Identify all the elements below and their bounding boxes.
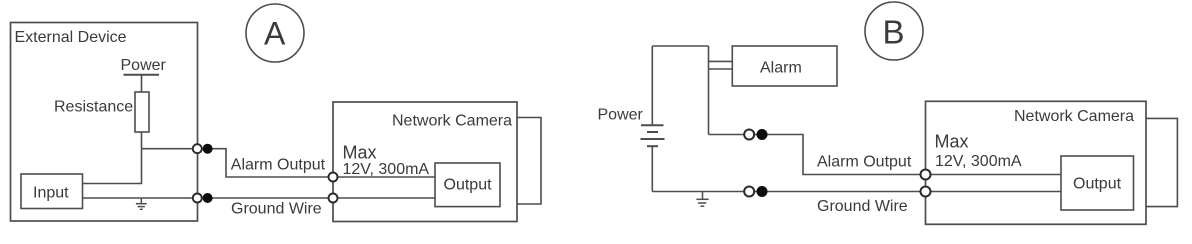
black terminal A2 (ground) [203,193,213,203]
white terminal B2 (ground) [744,187,754,197]
white camera terminal B2 [921,187,931,197]
svg-text:A: A [264,16,286,52]
external device box [11,23,198,222]
output box A [435,163,500,207]
white terminal B1 (alarm) [744,130,754,140]
svg-text:Max: Max [935,132,969,152]
resistor (Resistance) [135,92,149,132]
ground wire B [652,191,1061,193]
svg-text:Alarm Output: Alarm Output [231,157,326,174]
wire power terminal to resistor [141,75,143,92]
svg-text:Alarm Output: Alarm Output [817,153,912,170]
input box [21,174,83,209]
svg-text:Power: Power [121,57,167,74]
wire resistor bottom to junction [141,132,143,149]
white camera terminal A2 [329,194,338,203]
svg-text:Power: Power [598,107,644,124]
svg-text:12V, 300mA: 12V, 300mA [935,153,1022,170]
circle label A [246,4,304,62]
network camera box A [333,102,517,222]
ground wire A [83,197,435,199]
bracket B [1146,118,1177,206]
svg-text:External Device: External Device [15,29,127,46]
svg-text:Resistance: Resistance [54,99,133,116]
alarm output wire A [207,149,435,177]
output box B [1061,156,1134,210]
battery stem top [651,46,653,125]
white camera terminal B1 [921,170,931,180]
power terminal bar [124,74,160,76]
battery stem bottom [651,146,653,191]
svg-text:Max: Max [343,143,377,163]
circle label B [865,2,923,60]
svg-text:Network Camera: Network Camera [1014,108,1134,125]
wire junction to alarm terminal [142,148,198,150]
ground symbol A [136,198,147,209]
svg-text:B: B [883,13,905,50]
black terminal A1 (alarm) [203,144,213,154]
white terminal A2 (ground) [193,194,202,203]
alarm box stub 2 [709,68,733,70]
svg-text:Output: Output [1073,176,1122,193]
svg-text:Input: Input [33,185,69,202]
battery plates [641,125,665,146]
svg-text:Ground Wire: Ground Wire [817,198,908,215]
alarm box stub 1 [709,60,733,62]
svg-text:Network Camera: Network Camera [392,112,512,129]
white terminal A1 (alarm) [193,144,202,153]
svg-text:12V, 300mA: 12V, 300mA [343,161,430,178]
white camera terminal A1 [329,173,338,182]
alarm box [732,46,837,86]
top wire battery to vertical [652,45,708,47]
black terminal B2 (ground) [757,186,768,197]
bracket A [517,118,541,205]
svg-text:Output: Output [444,177,493,194]
svg-text:Alarm: Alarm [760,59,802,76]
black terminal B1 (alarm) [757,129,768,140]
network camera box B [926,101,1147,224]
alarm output wire B [709,135,1062,175]
wire input to junction [83,149,142,184]
svg-text:Ground Wire: Ground Wire [231,201,322,218]
vertical wire down to alarm row [708,46,710,135]
ground symbol B [696,192,708,207]
